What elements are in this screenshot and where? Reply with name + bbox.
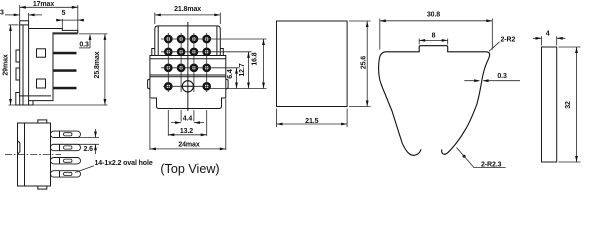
svg-text:21.5: 21.5 (305, 118, 318, 125)
svg-text:2-R2.3: 2-R2.3 (481, 161, 502, 168)
svg-text:16.8: 16.8 (252, 52, 259, 65)
svg-text:8: 8 (432, 33, 436, 40)
svg-text:0.3: 0.3 (497, 73, 507, 80)
svg-text:24max: 24max (178, 141, 200, 148)
svg-text:12.7: 12.7 (239, 63, 246, 76)
svg-text:2.6: 2.6 (84, 146, 94, 153)
svg-text:3: 3 (0, 10, 4, 17)
svg-text:13.2: 13.2 (180, 128, 193, 135)
svg-text:30.8: 30.8 (427, 12, 440, 19)
svg-text:14-1x2.2 oval hole: 14-1x2.2 oval hole (95, 160, 153, 167)
svg-text:25.6: 25.6 (360, 56, 367, 69)
svg-text:32: 32 (565, 101, 572, 109)
svg-text:6.4: 6.4 (227, 69, 234, 79)
svg-text:4.4: 4.4 (183, 116, 193, 123)
svg-text:25.8max: 25.8max (94, 51, 101, 78)
svg-text:4: 4 (546, 31, 550, 38)
svg-text:29max: 29max (3, 54, 10, 76)
svg-text:21.8max: 21.8max (174, 6, 201, 13)
svg-text:5: 5 (62, 10, 66, 17)
svg-text:(Top View): (Top View) (160, 162, 219, 176)
svg-text:2-R2: 2-R2 (501, 37, 516, 44)
